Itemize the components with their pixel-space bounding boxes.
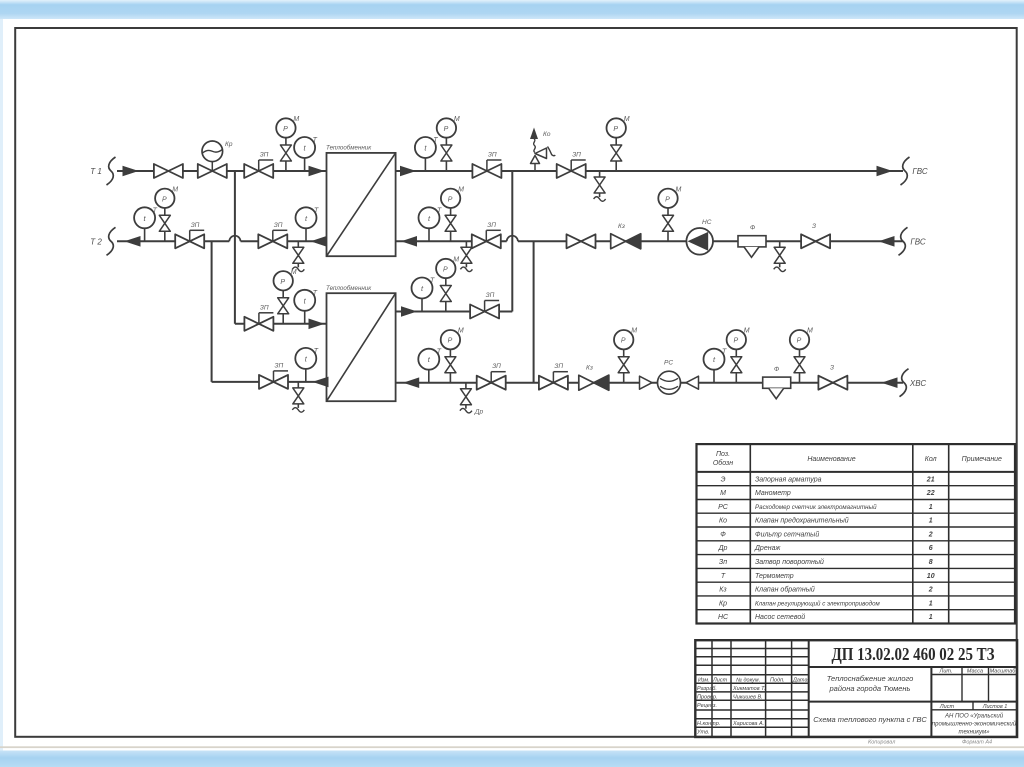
thermometer on recirculation	[419, 207, 443, 241]
svg-text:Наименование: Наименование	[807, 456, 855, 463]
svg-text:Ф: Ф	[750, 225, 755, 232]
flow arrow from GVS return	[880, 237, 894, 246]
svg-text:Т: Т	[722, 349, 727, 356]
svg-text:1: 1	[929, 614, 933, 621]
svg-text:Др: Др	[474, 409, 484, 416]
manometer after flow meter	[727, 328, 750, 383]
flow arrow into exchanger 2 secondary	[405, 378, 419, 387]
svg-text:М: М	[807, 328, 813, 335]
svg-text:М: М	[676, 186, 682, 193]
svg-text:Кз: Кз	[586, 365, 593, 372]
manometer on T1	[276, 116, 299, 171]
svg-text:2: 2	[928, 531, 933, 538]
svg-text:Ко: Ко	[719, 518, 727, 525]
manometer on T2	[155, 186, 178, 241]
svg-text:Ф: Ф	[720, 531, 726, 538]
svg-text:Лит.: Лит.	[939, 669, 953, 675]
svg-text:Н.контр.: Н.контр.	[697, 721, 720, 727]
svg-text:ЗП: ЗП	[554, 363, 563, 370]
svg-text:Клапан предохранительный: Клапан предохранительный	[755, 517, 849, 525]
footer small print	[868, 740, 992, 746]
svg-text:АН ПОО «Уральский: АН ПОО «Уральский	[944, 713, 1004, 720]
svg-text:НС: НС	[718, 614, 729, 621]
svg-text:Т: Т	[721, 573, 726, 580]
svg-text:Харисова А.: Харисова А.	[732, 721, 764, 727]
butterfly valve on DHW supply 2	[557, 152, 586, 179]
svg-text:22: 22	[926, 490, 935, 497]
svg-text:М: М	[454, 116, 460, 123]
drain valve on recirculation	[460, 241, 472, 271]
control valve Кр	[198, 141, 233, 178]
wire vertical recirculation drop	[533, 241, 535, 382]
title block organization	[932, 713, 1017, 736]
svg-text:Теплообменник: Теплообменник	[326, 285, 372, 292]
check valve Кз on XVS	[579, 365, 609, 391]
wire hop over outlet riser	[507, 236, 518, 242]
wire T1 supply line	[117, 170, 327, 172]
manometer on exchanger2 supply	[274, 269, 297, 324]
svg-text:Чикишев В.: Чикишев В.	[733, 694, 763, 700]
thermometer on XVS at exchanger	[418, 349, 442, 383]
svg-text:ЗП: ЗП	[492, 363, 501, 370]
svg-text:Реценз.: Реценз.	[697, 703, 717, 709]
flow arrow T2	[126, 237, 140, 246]
svg-text:10: 10	[927, 573, 935, 580]
svg-text:РС: РС	[718, 504, 729, 511]
check valve Кз on recirculation	[611, 223, 641, 249]
table rows text	[718, 476, 935, 621]
svg-text:1: 1	[929, 600, 933, 607]
svg-text:Обозн: Обозн	[713, 459, 733, 467]
title block project name	[827, 674, 914, 693]
svg-text:М: М	[291, 269, 297, 276]
svg-text:ЗП: ЗП	[260, 304, 269, 311]
svg-text:№ докум.: № докум.	[736, 677, 760, 683]
svg-text:Масштаб: Масштаб	[990, 669, 1017, 675]
svg-text:М: М	[293, 116, 299, 123]
svg-text:М: М	[631, 328, 637, 335]
pipe break at T1	[107, 157, 116, 185]
svg-text:промышленно-экономический: промышленно-экономический	[932, 721, 1017, 728]
svg-text:Т 1: Т 1	[90, 167, 102, 176]
svg-text:Примечание: Примечание	[962, 456, 1002, 463]
svg-text:Запорная арматура: Запорная арматура	[755, 476, 822, 483]
svg-text:6: 6	[929, 545, 933, 552]
manometer on XVS at exchanger	[441, 328, 464, 383]
svg-text:Утв.: Утв.	[696, 730, 710, 736]
wire exchanger2 primary supply	[235, 323, 327, 325]
heat exchanger 2	[326, 285, 396, 401]
butterfly valve on T1 branch	[244, 152, 273, 179]
strainer filter Ф on XVS	[763, 366, 791, 399]
butterfly valve on T2	[175, 222, 204, 249]
butterfly valve on exchanger2 return	[259, 362, 288, 389]
svg-text:Т: Т	[437, 349, 442, 356]
svg-text:2: 2	[928, 587, 933, 594]
wire cold water (XVS) line	[396, 382, 903, 384]
wire vertical from T1 to exchanger2	[234, 171, 236, 324]
svg-text:ГВС: ГВС	[912, 167, 928, 176]
flow arrow out of exchanger 1	[312, 237, 326, 246]
heat exchanger 1	[326, 145, 396, 257]
svg-text:Т 2: Т 2	[90, 238, 102, 247]
manometer on DHW supply 2	[607, 116, 630, 171]
manometer on exchanger2 outlet	[436, 257, 459, 312]
manometer on DHW supply	[437, 116, 460, 171]
flow arrow into exchanger 2	[309, 319, 323, 328]
svg-text:РС: РС	[664, 360, 673, 367]
svg-text:Теплообменник: Теплообменник	[326, 145, 372, 152]
flow arrow from XVS	[883, 378, 897, 387]
svg-text:Т: Т	[314, 207, 319, 214]
svg-text:ЗП: ЗП	[275, 362, 284, 369]
svg-text:ЗП: ЗП	[488, 152, 497, 159]
svg-text:Лист: Лист	[939, 704, 955, 710]
butterfly valve on recirculation	[472, 222, 501, 249]
wire GVS recirculation line	[396, 240, 507, 242]
pipe break at T2	[107, 227, 116, 255]
svg-text:Кол: Кол	[925, 456, 937, 463]
butterfly valve on XVS 2	[539, 363, 568, 390]
thermometer on T2	[134, 207, 158, 241]
gate valve З on XVS	[818, 365, 847, 390]
flow arrow into exchanger 1	[309, 166, 323, 175]
svg-text:Клапан обратный: Клапан обратный	[755, 586, 815, 594]
svg-text:Формат А4: Формат А4	[962, 740, 992, 746]
svg-text:Э: Э	[721, 476, 726, 483]
wire vertical exchanger2 outlet riser	[511, 171, 513, 312]
svg-text:Дренаж: Дренаж	[754, 545, 781, 552]
thermometer after flow meter	[704, 349, 728, 383]
wire vertical exchanger2 return to T2	[211, 241, 213, 382]
strainer filter Ф on recirculation	[738, 225, 766, 258]
svg-text:Фильтр сетчатый: Фильтр сетчатый	[755, 530, 819, 538]
pipe break at GVS return	[899, 227, 908, 255]
svg-text:Дата: Дата	[792, 677, 808, 683]
wire exchanger2 secondary outlet	[396, 311, 513, 313]
svg-text:Термометр: Термометр	[755, 573, 794, 580]
svg-text:Листов 1: Листов 1	[982, 704, 1008, 710]
drain valve on DHW supply	[594, 171, 606, 201]
butterfly valve on exchanger2 outlet	[470, 292, 499, 319]
svg-text:Зп: Зп	[719, 559, 727, 566]
gate valve on recirculation	[567, 234, 596, 248]
svg-text:Хикматов Т.: Хикматов Т.	[732, 686, 766, 692]
manometer before flow meter	[614, 328, 637, 383]
component list table	[697, 444, 1016, 623]
butterfly valve on XVS 1	[477, 363, 506, 390]
manometer after XVS filter	[790, 328, 813, 383]
svg-text:1: 1	[929, 518, 933, 525]
thermometer on T2 at exchanger 1	[296, 207, 320, 241]
svg-text:ДП 13.02.02 460 02 25 ТЗ: ДП 13.02.02 460 02 25 ТЗ	[832, 644, 995, 664]
svg-text:Ко: Ко	[543, 131, 551, 138]
svg-text:Копировал: Копировал	[868, 740, 895, 746]
svg-text:техникум»: техникум»	[959, 730, 991, 736]
svg-text:Насос сетевой: Насос сетевой	[755, 613, 805, 621]
butterfly valve on DHW supply	[472, 152, 501, 179]
svg-text:Масса: Масса	[967, 669, 983, 675]
drain valve on exchanger2 return	[292, 382, 304, 412]
wire T2 return line	[117, 240, 229, 242]
thermometer on exchanger2 return	[295, 348, 319, 382]
title block	[695, 640, 1017, 737]
svg-text:М: М	[458, 186, 464, 193]
manometer on recirculation	[441, 186, 464, 241]
pump НС	[686, 219, 713, 255]
flow arrow T1	[123, 166, 137, 175]
svg-text:ЗП: ЗП	[274, 222, 283, 229]
thermometer on exchanger2 outlet	[412, 278, 436, 312]
svg-text:Подп.: Подп.	[770, 677, 785, 683]
svg-text:Ф: Ф	[774, 366, 779, 373]
svg-text:Кр: Кр	[719, 600, 727, 607]
svg-text:ЗП: ЗП	[572, 152, 581, 159]
title block signature rows	[696, 677, 808, 735]
svg-text:Манометр: Манометр	[755, 490, 791, 497]
svg-text:Т: Т	[437, 207, 442, 214]
svg-text:Поз.: Поз.	[716, 451, 730, 458]
svg-text:Т: Т	[314, 348, 319, 355]
flow arrow to GVS	[877, 166, 891, 175]
svg-text:Т: Т	[313, 290, 318, 297]
svg-text:М: М	[744, 328, 750, 335]
gate valve З on recirculation	[801, 223, 830, 248]
svg-text:Т: Т	[313, 137, 318, 144]
svg-text:ЗП: ЗП	[486, 292, 495, 299]
manometer at pump	[658, 186, 681, 241]
flow arrow exchanger 2 outlet	[402, 307, 416, 316]
svg-text:8: 8	[929, 559, 933, 566]
svg-text:Кз: Кз	[618, 223, 625, 230]
flow meter РС	[640, 360, 699, 395]
drain valve after filter	[774, 241, 786, 271]
svg-text:М: М	[720, 490, 726, 497]
svg-text:М: М	[624, 116, 630, 123]
svg-text:Разраб.: Разраб.	[697, 686, 717, 692]
thermometer on T1	[294, 137, 318, 171]
svg-text:Т: Т	[153, 207, 158, 214]
table header text	[713, 451, 1002, 467]
svg-text:М: М	[458, 328, 464, 335]
svg-text:ХВС: ХВС	[909, 379, 926, 388]
svg-text:Лист: Лист	[712, 677, 728, 683]
safety valve Ко	[530, 128, 555, 172]
svg-text:Клапан регулирующий с электроп: Клапан регулирующий с электроприводом	[755, 600, 881, 607]
butterfly valve on T2 at exchanger 1	[258, 222, 287, 249]
thermometer on DHW supply	[415, 137, 439, 171]
svg-text:М: М	[453, 257, 459, 264]
thermometer on exchanger2 supply	[294, 290, 318, 324]
flow arrow into exchanger 1 secondary	[403, 237, 417, 246]
title block lit massa masshtab	[939, 669, 1017, 710]
svg-text:Затвор поворотный: Затвор поворотный	[755, 558, 824, 566]
flow arrow out of exchanger 2	[314, 377, 328, 386]
svg-text:ГВС: ГВС	[910, 238, 926, 247]
pipe break at XVS	[900, 369, 909, 397]
svg-text:Теплоснабжение жилого: Теплоснабжение жилого	[827, 674, 914, 683]
wire exchanger2 primary return	[212, 381, 327, 383]
svg-text:Кр: Кр	[225, 141, 233, 148]
svg-text:Расходомер счетчик электромагн: Расходомер счетчик электромагнитный	[755, 504, 877, 511]
svg-text:Т: Т	[433, 137, 438, 144]
svg-text:1: 1	[929, 504, 933, 511]
svg-text:Др: Др	[718, 545, 728, 552]
wire hop over riser at T2	[229, 236, 240, 242]
svg-text:ЗП: ЗП	[260, 152, 269, 159]
svg-text:З: З	[812, 223, 816, 230]
svg-text:Изм.: Изм.	[698, 677, 710, 683]
svg-text:ЗП: ЗП	[191, 222, 200, 229]
svg-text:Схема теплового пункта с ГВС: Схема теплового пункта с ГВС	[813, 715, 927, 724]
svg-text:М: М	[172, 186, 178, 193]
svg-text:Провер.: Провер.	[697, 694, 718, 700]
pipe break at GVS supply	[901, 157, 910, 185]
svg-text:Т: Т	[430, 278, 435, 285]
svg-text:Кз: Кз	[719, 587, 727, 594]
svg-text:З: З	[830, 365, 834, 372]
drain valve on T2	[292, 241, 304, 271]
flow arrow exchanger 1 outlet	[401, 166, 415, 175]
svg-text:ЗП: ЗП	[487, 222, 496, 229]
svg-text:НС: НС	[702, 219, 712, 226]
svg-text:21: 21	[926, 476, 935, 483]
svg-text:района города Тюмень: района города Тюмень	[829, 684, 911, 693]
drain valve on XVS	[460, 383, 484, 416]
butterfly valve on exchanger2 supply	[244, 304, 273, 331]
gate valve on T1	[154, 164, 183, 178]
